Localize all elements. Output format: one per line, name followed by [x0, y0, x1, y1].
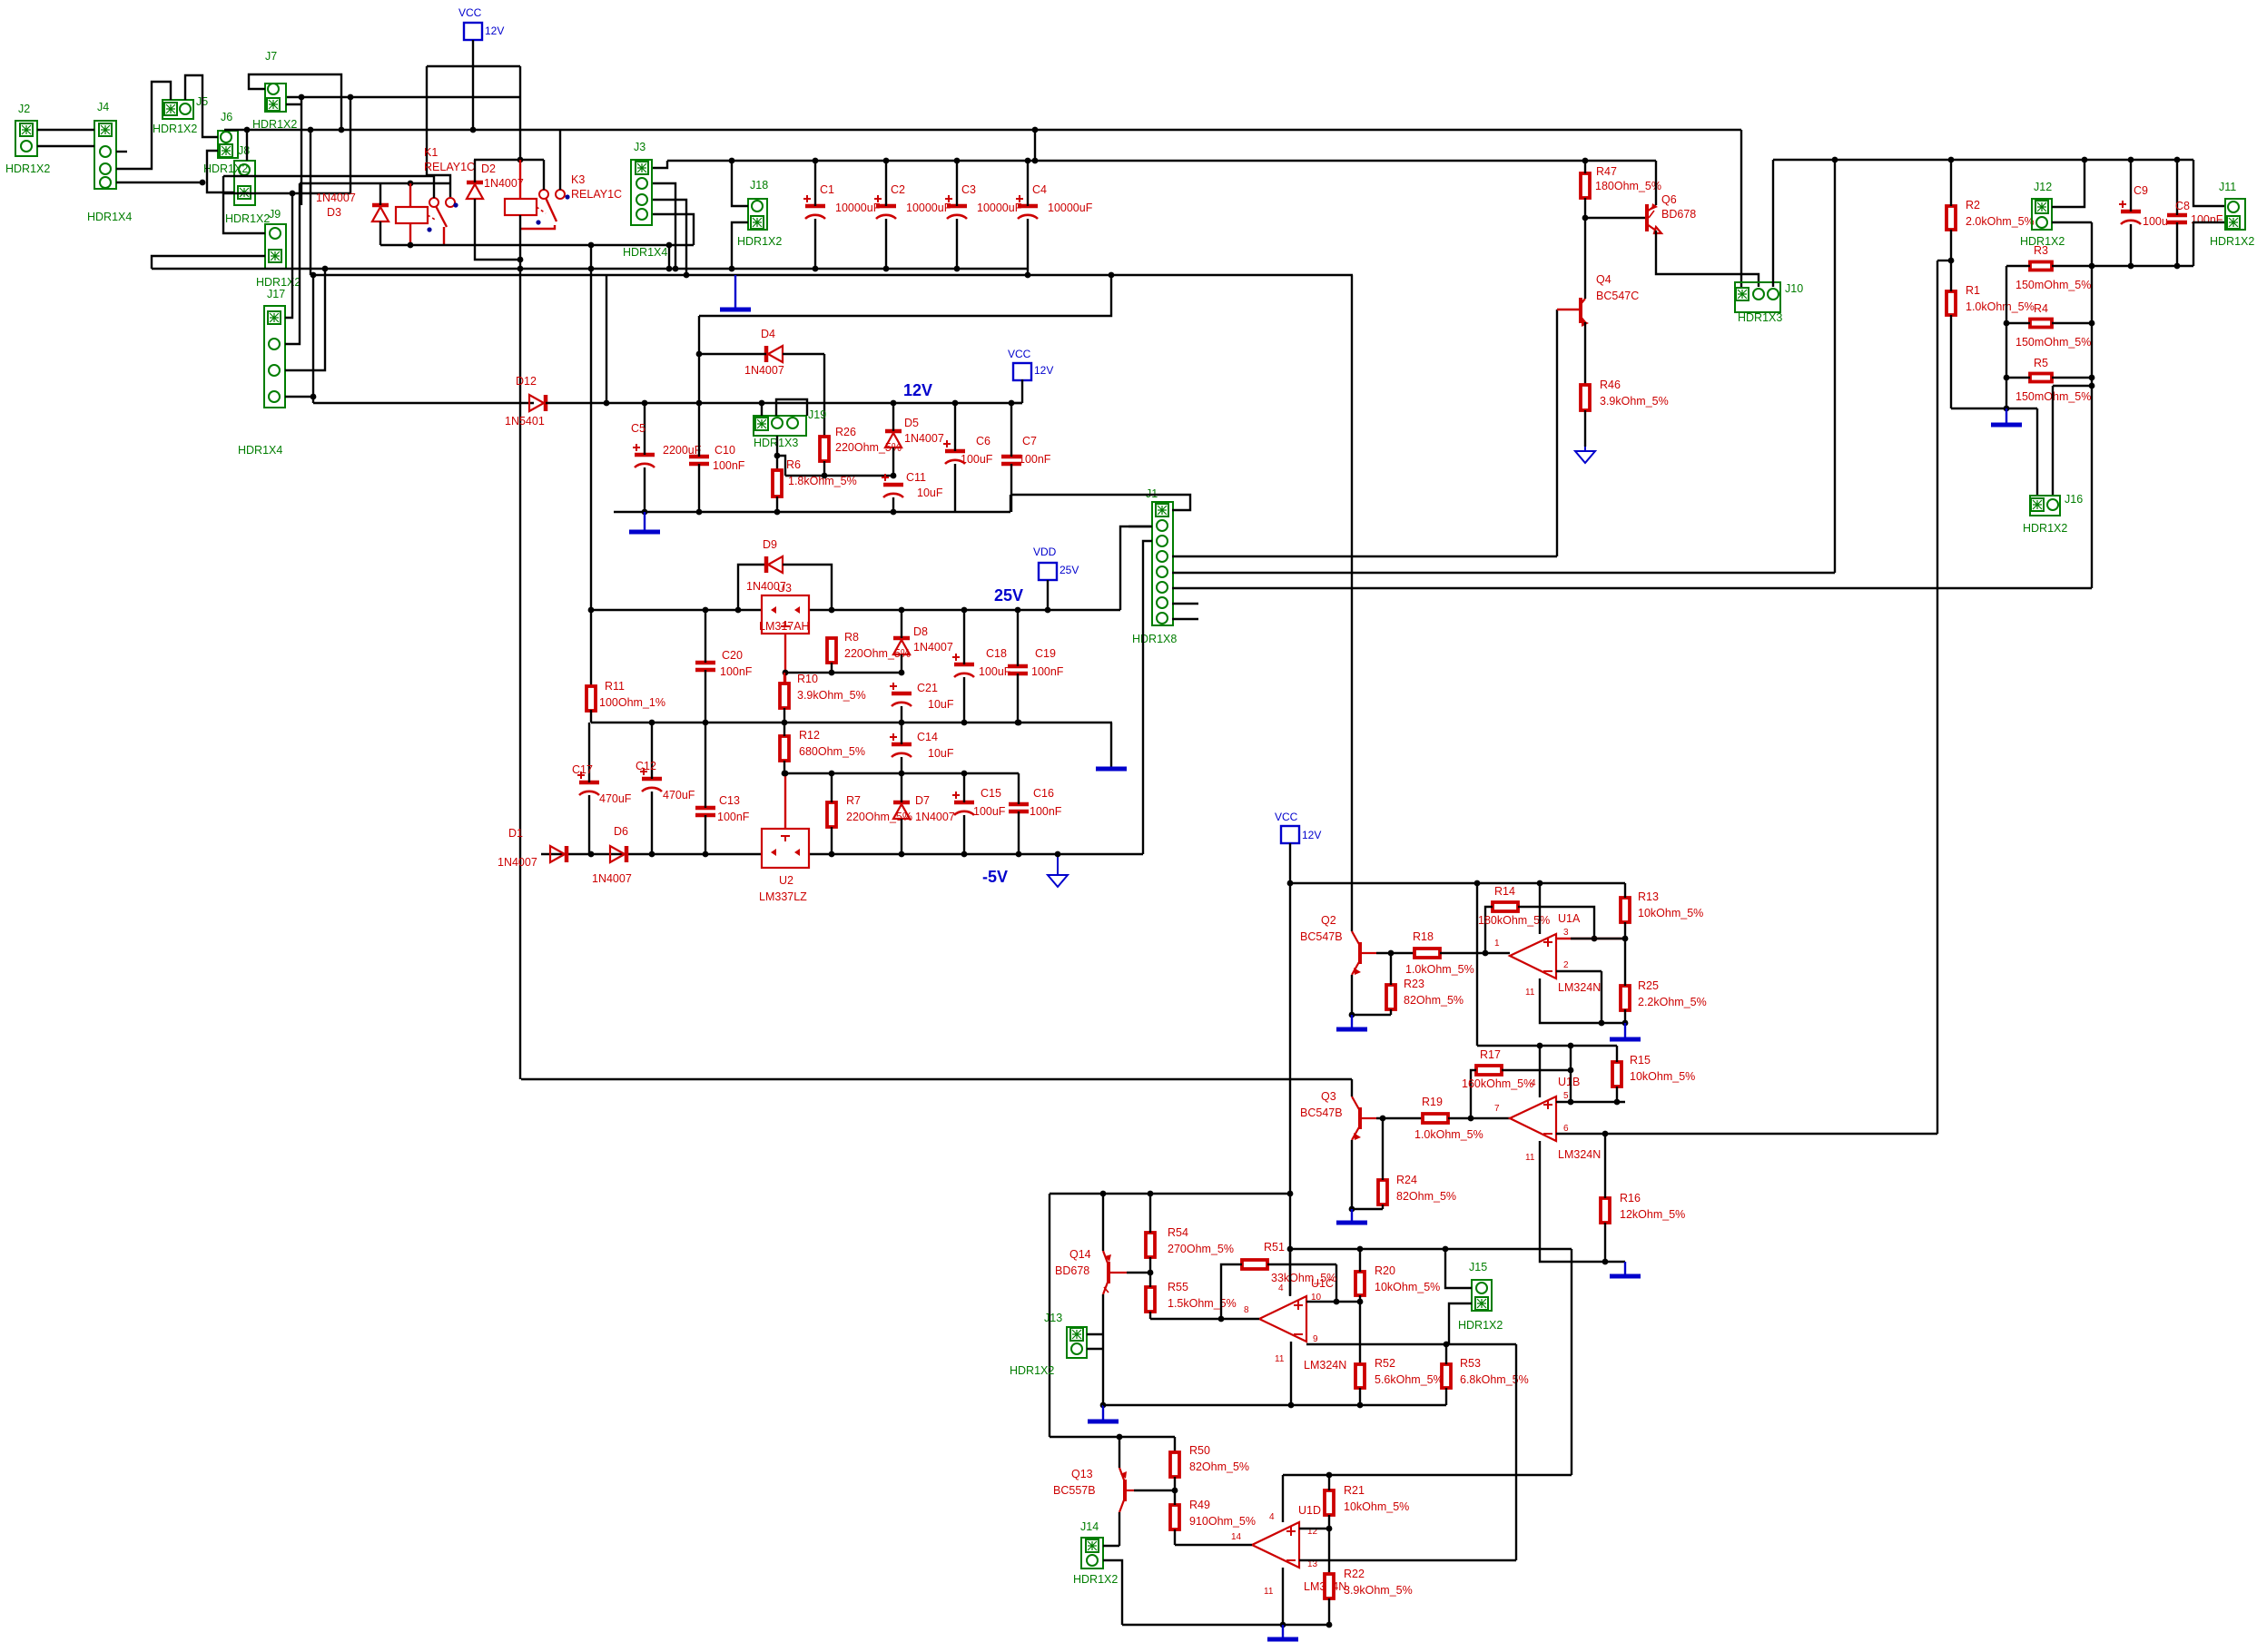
wire R51 right lead	[1267, 1264, 1336, 1265]
wire column x2134 to U1B pin6	[1937, 261, 1938, 1134]
svg-text:R7: R7	[846, 794, 861, 807]
svg-text:LM337LZ: LM337LZ	[759, 890, 807, 903]
wire net y1152	[1477, 1045, 1617, 1047]
svg-text:1.0kOhm_5%: 1.0kOhm_5%	[1405, 963, 1474, 976]
wire R21 top lead	[1328, 1475, 1330, 1490]
wire U1D pin13	[1299, 1559, 1516, 1561]
wire U1C pin11 col	[1290, 1342, 1292, 1405]
svg-text:25V: 25V	[1060, 564, 1079, 576]
wire R50 bottom lead	[1174, 1477, 1176, 1490]
wire C18 bottom lead	[963, 677, 965, 723]
svg-text:680Ohm_5%: 680Ohm_5%	[799, 745, 865, 758]
diode D4 (1N4007)	[766, 346, 783, 362]
wire pin2 drop x1764	[1601, 971, 1602, 1023]
svg-text:LM317AH: LM317AH	[759, 620, 810, 633]
label R51	[1264, 1241, 1285, 1254]
capacitor C20 (100nF)	[695, 663, 715, 670]
wire J18.1 hook to bus177	[732, 161, 748, 206]
wire net y107 (J7 bus)	[287, 96, 520, 98]
svg-text:R14: R14	[1494, 885, 1515, 898]
resistor R4 (150mOhm_5%)	[2030, 320, 2052, 328]
junction R4 right	[2089, 320, 2095, 327]
connector J11 (HDR1X2)	[2225, 199, 2245, 230]
resistor R1 (1.0kOhm_5%)	[1947, 291, 1956, 315]
label C19 value	[1031, 665, 1064, 678]
label BD678 of Q14	[1055, 1264, 1089, 1277]
junction C3 bottom	[954, 266, 961, 272]
junction adj R8	[829, 670, 835, 676]
junction pin5 R15	[1614, 1099, 1621, 1106]
wire drop x668	[606, 275, 607, 403]
junction pin11d	[1280, 1622, 1286, 1628]
label R11 value	[599, 696, 665, 709]
wire C17 top lead	[588, 723, 590, 782]
wire J3.1 hook to bus177	[653, 161, 667, 168]
pin 2 of U1A	[1563, 960, 1569, 970]
wire J4.3 to J5.1	[116, 82, 171, 169]
label HDR1X3	[754, 437, 798, 449]
junction C5 top	[642, 400, 648, 407]
label R15 value	[1630, 1070, 1695, 1083]
wire J17.3	[285, 269, 325, 370]
power symbol VCC 12V (opamp)	[1281, 826, 1299, 843]
diode D12 (1N5401)	[529, 395, 546, 411]
power symbol VDD 25V	[1039, 563, 1057, 580]
svg-text:3.9kOhm_5%: 3.9kOhm_5%	[1600, 395, 1669, 408]
label 1N4007 of D1	[498, 856, 537, 869]
wire U1A pin4 column	[1539, 883, 1541, 934]
svg-text:180Ohm_5%: 180Ohm_5%	[1595, 180, 1661, 192]
svg-text:100uF: 100uF	[979, 665, 1011, 678]
wire R14 left hook	[1485, 907, 1493, 953]
power symbol VCC 12V (reg)	[1013, 363, 1031, 380]
junction C1 bottom	[813, 266, 819, 272]
wire net y213	[223, 192, 350, 194]
wire VCC lead	[472, 40, 474, 130]
svg-text:10uF: 10uF	[928, 747, 954, 760]
label C6	[976, 435, 991, 447]
wire column x332	[301, 97, 302, 205]
wire K1 coil bottom lead	[409, 223, 411, 245]
label C14	[917, 731, 938, 743]
wire U1D pin4 col	[1282, 1475, 1284, 1522]
wire column x2304	[2091, 222, 2093, 588]
svg-text:C9: C9	[2134, 184, 2148, 197]
svg-text:D2: D2	[481, 162, 496, 175]
connector J5 (HDR1X2)	[163, 100, 193, 119]
label 12V	[1034, 364, 1053, 377]
label C10 value	[713, 459, 745, 472]
label R23	[1404, 978, 1424, 990]
diode D8 (1N4007)	[893, 638, 910, 654]
label VCC	[1008, 348, 1031, 360]
wire R17 left hook	[1471, 1070, 1476, 1118]
svg-text:8: 8	[1244, 1305, 1249, 1315]
junction J19.1	[759, 400, 765, 407]
label HDR1X2	[1010, 1364, 1054, 1377]
svg-text:C7: C7	[1022, 435, 1037, 447]
relay K1 coil	[396, 207, 428, 223]
label R14	[1494, 885, 1515, 898]
label C8	[2175, 200, 2190, 212]
label Q14	[1069, 1248, 1091, 1261]
label R26	[835, 426, 856, 438]
label HDR1X2	[256, 276, 301, 289]
wire R50 top lead	[1174, 1437, 1176, 1452]
svg-text:BD678: BD678	[1661, 208, 1696, 221]
label R8 value	[844, 647, 911, 660]
label C2 value	[906, 202, 951, 214]
label D12	[516, 375, 537, 388]
wire R23 bottom lead	[1390, 1009, 1392, 1015]
label RELAY1C of K1	[424, 161, 475, 173]
svg-text:C17: C17	[572, 763, 593, 776]
label J10	[1785, 282, 1803, 295]
svg-text:5.6kOhm_5%: 5.6kOhm_5%	[1375, 1373, 1444, 1386]
label U3	[777, 582, 792, 595]
wire bus y177 (cap rail)	[667, 160, 1656, 162]
label C20	[722, 649, 743, 662]
wire D3 leads	[379, 183, 381, 205]
wire x770 column	[698, 316, 700, 457]
label R54 value	[1168, 1243, 1234, 1255]
pin 1 of U1A	[1494, 939, 1500, 949]
connector J4 (HDR1X4)	[94, 121, 116, 189]
wire net y194 to K1 left contact	[223, 175, 434, 177]
label C4 value	[1048, 202, 1093, 214]
label BC547B of Q2	[1300, 930, 1343, 943]
wire net y1583	[1050, 1436, 1175, 1438]
svg-text:11: 11	[1275, 1354, 1285, 1364]
svg-text:D1: D1	[508, 827, 523, 840]
label LM324N of U1A	[1558, 981, 1601, 994]
junction y293 C9	[2128, 263, 2134, 270]
wire bus y176 left segment	[474, 159, 544, 161]
wire R52 bottom lead	[1359, 1388, 1361, 1405]
wire J7.1 hook	[249, 74, 341, 130]
resistor R54 (270Ohm_5%)	[1146, 1233, 1155, 1257]
junction rail939 x1122	[1016, 851, 1022, 858]
label D1	[508, 827, 523, 840]
wire U2 adj lead	[784, 773, 786, 829]
wire C4 top lead	[1027, 161, 1029, 206]
wire C20 bottom lead	[705, 670, 706, 723]
svg-text:100nF: 100nF	[713, 459, 745, 472]
junction x770 D4	[696, 351, 703, 358]
svg-text:R49: R49	[1189, 1499, 1210, 1511]
junction rail176 x2149	[1948, 157, 1955, 163]
label R24 value	[1396, 1190, 1456, 1203]
svg-text:R25: R25	[1638, 979, 1659, 992]
label R26 value	[835, 441, 902, 454]
label U2	[779, 874, 793, 887]
wire net y202 relay	[380, 182, 450, 184]
svg-text:Q2: Q2	[1321, 914, 1336, 927]
wire C18 top lead	[963, 610, 965, 664]
connector J14 (HDR1X2)	[1081, 1538, 1103, 1568]
label U1D	[1298, 1504, 1321, 1517]
label R10	[797, 673, 818, 685]
svg-text:100nF: 100nF	[717, 811, 750, 823]
junction D5 top	[891, 400, 897, 407]
wire J1.5 bus y631	[1172, 572, 1835, 574]
svg-text:R16: R16	[1620, 1192, 1641, 1205]
wire J5.2 to J6.1	[185, 75, 218, 137]
svg-text:J12: J12	[2034, 181, 2052, 193]
label J13	[1044, 1312, 1062, 1324]
relay K3 coil	[505, 199, 537, 215]
wire J3.4 hook	[653, 214, 694, 245]
resistor R51 (33kOhm_5%)	[1242, 1260, 1267, 1269]
capacitor C13 (100nF)	[695, 808, 715, 815]
wire J9.1 hook	[223, 193, 265, 233]
net label 25V	[994, 586, 1023, 605]
regulator U2 (LM337LZ)	[762, 829, 809, 868]
label R18	[1413, 930, 1434, 943]
capacitor C9 (100uF)	[2119, 201, 2141, 224]
wire J8.1 drop from bus	[246, 130, 248, 161]
svg-text:1N5401: 1N5401	[505, 415, 545, 428]
transistor Q6 (BD678)	[1647, 203, 1661, 233]
wire J17.4 stub	[285, 396, 313, 398]
label HDR1X2	[2023, 522, 2067, 535]
junction gnd -5V	[1055, 851, 1061, 858]
label 1N4007 of D3	[316, 192, 356, 204]
svg-text:Q4: Q4	[1596, 273, 1611, 286]
svg-text:150mOhm_5%: 150mOhm_5%	[2016, 279, 2091, 291]
svg-text:10kOhm_5%: 10kOhm_5%	[1375, 1281, 1440, 1293]
svg-text:1.0kOhm_5%: 1.0kOhm_5%	[1414, 1128, 1483, 1141]
label HDR1X2	[1073, 1573, 1118, 1586]
label HDR1X2	[2020, 235, 2065, 248]
resistor R8 (220Ohm_5%)	[827, 638, 836, 663]
label 1N4007 of D7	[915, 811, 955, 823]
junction R4 left	[2004, 320, 2010, 327]
pin 13 of U1D	[1307, 1559, 1318, 1569]
wire J1.6 bus y648	[1172, 587, 2092, 589]
label R21	[1344, 1484, 1365, 1497]
svg-text:1N4007: 1N4007	[913, 641, 953, 654]
label C15	[981, 787, 1001, 800]
label C1 value	[835, 202, 881, 214]
label U1A	[1558, 912, 1581, 925]
pin 4 of U1B	[1531, 1078, 1536, 1088]
wire R17 right lead	[1502, 1069, 1571, 1071]
svg-text:U1A: U1A	[1558, 912, 1581, 925]
junction bus1315 Q14	[1100, 1191, 1107, 1197]
wire C14 bottom lead	[901, 757, 902, 773]
label R2 value	[1966, 215, 2035, 228]
wire rail y176 right	[1773, 159, 2193, 161]
label C13	[719, 794, 740, 807]
wire C17 bottom lead	[588, 795, 590, 854]
pin 10 of U1C	[1311, 1293, 1322, 1303]
label J6	[221, 111, 232, 123]
junction bus1315 R54	[1148, 1191, 1154, 1197]
wire relay bus drop	[668, 245, 670, 269]
svg-text:1.8kOhm_5%: 1.8kOhm_5%	[788, 475, 857, 487]
label J12	[2034, 181, 2052, 193]
svg-text:R19: R19	[1422, 1096, 1443, 1108]
junction C11 bottom	[891, 509, 897, 516]
junction y852 x916	[829, 771, 835, 777]
junction relay bus on bus296	[666, 266, 673, 272]
svg-text:Q14: Q14	[1069, 1248, 1091, 1261]
label HDR1X2	[1458, 1319, 1503, 1332]
label R2	[1966, 199, 1980, 211]
svg-text:4: 4	[1278, 1283, 1284, 1293]
wire R16 top lead	[1604, 1134, 1606, 1198]
connector J8 (HDR1X2)	[234, 161, 255, 205]
wire reg bottom rail y564	[614, 511, 1010, 513]
capacitor C17 (470uF)	[577, 772, 599, 795]
wire R21 bottom lead	[1328, 1515, 1330, 1529]
junction pin10 R20	[1357, 1299, 1364, 1305]
wire relay common bus y270	[380, 244, 694, 246]
svg-text:HDR1X2: HDR1X2	[1458, 1319, 1503, 1332]
label C17	[572, 763, 593, 776]
svg-text:R11: R11	[605, 680, 625, 693]
wire D4 bypass top	[699, 275, 1111, 316]
wire Q14 base net	[1127, 1272, 1150, 1273]
wire R15 bottom lead	[1616, 1087, 1618, 1102]
svg-text:C15: C15	[981, 787, 1001, 800]
junction Q3 base R24	[1380, 1116, 1386, 1122]
label C21 value	[928, 698, 954, 711]
label R50	[1189, 1444, 1210, 1457]
svg-text:100nF: 100nF	[1030, 805, 1062, 818]
op-amp U1A (LM324N)	[1510, 934, 1556, 978]
resistor R19 (1.0kOhm_5%)	[1423, 1114, 1448, 1123]
junction y1625 R21	[1326, 1472, 1333, 1479]
label C12 value	[663, 789, 695, 801]
wire U1B pin11 net	[1540, 1141, 1625, 1262]
junction rail939 x993	[899, 851, 905, 858]
wire J17.1	[285, 193, 292, 318]
relay K1 right contact	[446, 198, 455, 207]
svg-text:3.9kOhm_5%: 3.9kOhm_5%	[1344, 1584, 1413, 1597]
resistor R18 (1.0kOhm_5%)	[1414, 949, 1440, 958]
wire Q2 collector column	[1351, 275, 1353, 931]
pin 4 of U1D	[1269, 1512, 1275, 1522]
junction jog top	[1032, 127, 1039, 133]
svg-text:VCC: VCC	[458, 6, 482, 19]
junction bus143 x342	[308, 127, 314, 133]
label HDR1X2	[203, 162, 248, 175]
junction VCC on bus143	[470, 127, 477, 133]
resistor R52 (5.6kOhm_5%)	[1355, 1364, 1365, 1388]
junction rail973 x1696	[1537, 880, 1543, 887]
svg-text:J2: J2	[18, 103, 30, 115]
junction pin1 R14	[1483, 950, 1489, 957]
wire J1.4 to Q4 base	[1172, 556, 1557, 557]
label R25	[1638, 979, 1659, 992]
svg-text:Q3: Q3	[1321, 1090, 1336, 1103]
ground under J13	[1088, 1405, 1119, 1421]
label VDD	[1033, 546, 1057, 558]
wire J1.1 riser to reg rail	[1010, 495, 1011, 512]
junction y213 x322	[290, 191, 296, 197]
svg-text:D9: D9	[763, 538, 777, 551]
label R6	[786, 458, 801, 471]
svg-text:HDR1X4: HDR1X4	[87, 211, 132, 223]
junction C21 bottom	[899, 720, 905, 726]
svg-text:R2: R2	[1966, 199, 1980, 211]
svg-text:C2: C2	[891, 183, 905, 196]
label Q3	[1321, 1090, 1336, 1103]
label D6	[614, 825, 628, 838]
wire C13 bottom lead	[705, 815, 706, 854]
junction R10 bottom	[782, 720, 788, 726]
wire Q3 emitter	[1352, 1140, 1383, 1209]
junction C1 top	[813, 158, 819, 164]
resistor R20 (10kOhm_5%)	[1355, 1272, 1365, 1295]
svg-text:4: 4	[1269, 1512, 1275, 1522]
label BD678 of Q6	[1661, 208, 1696, 221]
label R47	[1596, 165, 1617, 178]
svg-text:J14: J14	[1080, 1520, 1099, 1533]
junction C18 bottom	[961, 720, 968, 726]
svg-text:HDR1X2: HDR1X2	[153, 123, 197, 135]
wire R25 bottom lead	[1624, 1009, 1626, 1023]
label J4	[97, 101, 109, 113]
label J19	[808, 408, 826, 421]
label VCC	[458, 6, 482, 19]
svg-text:U1B: U1B	[1558, 1076, 1580, 1088]
wire bus y296	[152, 268, 1028, 270]
wire x1627 column	[1476, 883, 1478, 1046]
svg-text:BC547C: BC547C	[1596, 290, 1639, 302]
resistor R46 (3.9kOhm_5%)	[1581, 385, 1590, 410]
svg-text:HDR1X2: HDR1X2	[1010, 1364, 1054, 1377]
svg-text:R12: R12	[799, 729, 820, 742]
junction bus296 x744	[673, 266, 679, 272]
label C15 value	[973, 805, 1006, 818]
svg-text:R51: R51	[1264, 1241, 1285, 1254]
junction jog bottom	[1032, 158, 1039, 164]
wire R20 top lead	[1359, 1249, 1361, 1272]
net label -5V	[982, 868, 1008, 886]
wire J1.1 hook	[1010, 495, 1190, 510]
wire C5 top lead	[644, 403, 646, 455]
label R22	[1344, 1568, 1365, 1580]
resistor R22 (3.9kOhm_5%)	[1325, 1574, 1334, 1598]
junction x668 rail	[604, 400, 610, 407]
wire R3 left lead	[2006, 265, 2030, 267]
label R49 value	[1189, 1515, 1256, 1528]
svg-text:U3: U3	[777, 582, 792, 595]
label R24	[1396, 1174, 1417, 1186]
relay K3 right contact	[556, 190, 565, 199]
wire D12 anode line	[313, 402, 534, 404]
svg-text:10kOhm_5%: 10kOhm_5%	[1638, 907, 1703, 919]
svg-text:C13: C13	[719, 794, 740, 807]
pin 3 of U1A	[1563, 928, 1569, 938]
ground under Q2	[1336, 1015, 1367, 1029]
junction VCC bus1315	[1287, 1191, 1294, 1197]
label C16 value	[1030, 805, 1062, 818]
ground under J3	[720, 275, 751, 310]
capacitor C7 (100nF)	[1001, 457, 1021, 464]
wire C19 top lead	[1017, 610, 1019, 666]
junction rail973 x1627	[1474, 880, 1481, 887]
wire C8 top lead	[2176, 160, 2178, 215]
label D7	[915, 794, 930, 807]
svg-text:R50: R50	[1189, 1444, 1210, 1457]
resistor R55 (1.5kOhm_5%)	[1146, 1287, 1155, 1312]
wire J1.7 stub	[1172, 603, 1198, 605]
wire R15 top lead	[1616, 1046, 1618, 1062]
